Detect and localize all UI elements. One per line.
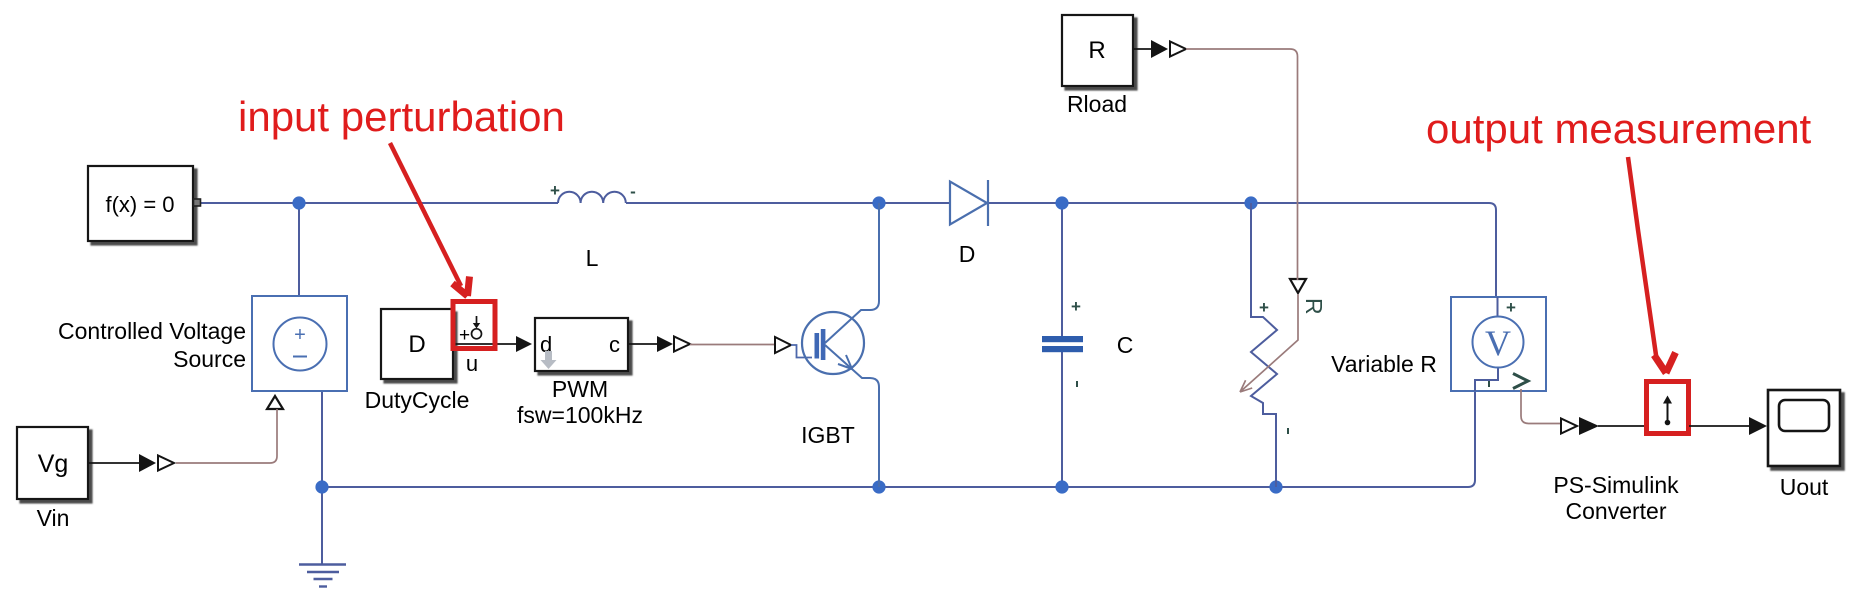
port: PWM output hollow arrow	[674, 337, 690, 352]
solver block f(x)=0	[88, 166, 201, 241]
svg-text:+: +	[294, 324, 306, 346]
svg-text:L: L	[586, 245, 599, 271]
wire: top rail inductor to right corner down to sensor	[626, 203, 1496, 317]
voltage sensor V1	[1451, 297, 1546, 391]
wire: Rload output line	[1133, 48, 1152, 50]
svg-text:DutyCycle: DutyCycle	[365, 387, 470, 413]
node A: CVS top junction	[292, 196, 305, 209]
svg-text:u: u	[466, 351, 478, 376]
wire: Vg output line	[88, 462, 140, 464]
port: arrow into PWM	[516, 336, 532, 352]
port: scope input filled arrow	[1749, 417, 1767, 435]
svg-text:c: c	[609, 332, 620, 357]
controlled voltage source U1	[58, 296, 347, 391]
wire: gate bracket into IGBT	[791, 345, 812, 358]
wire: Rload to resistor control (maroon)	[1186, 49, 1298, 280]
source block Vg	[17, 427, 88, 531]
wire: sensor output to PS-Simulink converter (maroon)	[1521, 389, 1561, 424]
port: Vg simulink-ps hollow arrow	[158, 456, 174, 471]
wire: converter to measurement marker	[1598, 425, 1647, 427]
PWM block	[517, 318, 643, 428]
port: converter hollow arrow	[1561, 419, 1577, 434]
svg-text:Controlled Voltage: Controlled Voltage	[58, 318, 246, 344]
wire: PWM output	[628, 343, 658, 345]
svg-text:-: -	[630, 182, 636, 201]
wire: D block to PWM through sum marker	[453, 343, 517, 345]
svg-text:Vin: Vin	[37, 505, 70, 531]
wire: capacitor top branch	[1061, 203, 1063, 337]
svg-text:f(x) = 0: f(x) = 0	[105, 192, 174, 217]
annotation arrow (input)	[390, 143, 470, 296]
svg-text:R: R	[1301, 298, 1327, 315]
svg-text:+: +	[1071, 297, 1081, 316]
scope block Uout	[1768, 390, 1840, 500]
port: hollow arrow at IGBT gate	[775, 337, 791, 353]
wire: CVS bottom to ground	[321, 391, 323, 565]
wire: top rail from f(x)=0 to inductor	[200, 202, 558, 204]
wire: marker to scope	[1689, 425, 1750, 427]
variable resistor R1 zigzag	[1251, 203, 1288, 487]
block D (DutyCycle)	[365, 309, 470, 413]
measurement marker (red box)	[1647, 382, 1689, 434]
ground	[299, 565, 346, 587]
svg-text:output measurement: output measurement	[1426, 105, 1812, 152]
port: Vg simulink-ps filled arrow	[139, 454, 156, 472]
svg-text:Source: Source	[173, 346, 246, 372]
svg-text:V: V	[1485, 323, 1511, 363]
signal input port triangle of CVS	[267, 396, 283, 409]
port: resistor control input triangle	[1290, 279, 1306, 293]
wire: Vg to CVS (signal, maroon)	[176, 409, 277, 463]
inductor L	[550, 181, 636, 271]
svg-text:Variable R: Variable R	[1331, 351, 1437, 377]
svg-text:IGBT: IGBT	[801, 422, 855, 448]
wire: bottom rail with sensor return	[322, 391, 1475, 487]
svg-text:PWM: PWM	[552, 376, 608, 402]
port: Rload hollow arrow	[1170, 42, 1186, 57]
node E: ground junction	[315, 480, 328, 493]
capacitor C1	[1042, 297, 1133, 387]
diode D1	[950, 180, 988, 267]
perturbation sum marker (red box)	[453, 302, 495, 349]
svg-text:R: R	[1088, 37, 1105, 64]
svg-text:Rload: Rload	[1067, 91, 1127, 117]
svg-text:+: +	[550, 181, 560, 200]
port: converter filled arrow	[1579, 417, 1599, 435]
svg-text:Uout: Uout	[1780, 474, 1829, 500]
node C: capacitor top junction	[1055, 196, 1068, 209]
port: Rload filled arrow	[1151, 40, 1168, 58]
node F: IGBT emitter junction	[872, 480, 885, 493]
node G: capacitor bottom junction	[1055, 480, 1068, 493]
node H: resistor bottom junction	[1269, 480, 1282, 493]
svg-text:input perturbation: input perturbation	[238, 93, 565, 140]
Rload block	[1062, 15, 1133, 117]
wire: Rload control into resistor (maroon arrow)	[1240, 294, 1298, 392]
wire: PWM to IGBT gate (signal, maroon)	[690, 344, 775, 346]
svg-text:fsw=100kHz: fsw=100kHz	[517, 402, 643, 428]
svg-text:Converter: Converter	[1566, 498, 1667, 524]
wire: CVS top branch	[298, 203, 300, 297]
node B: IGBT collector junction	[872, 196, 885, 209]
svg-text:D: D	[959, 241, 976, 267]
svg-text:C: C	[1117, 332, 1134, 358]
wire: capacitor bottom branch	[1061, 352, 1063, 487]
port: PWM output filled arrow	[657, 336, 673, 352]
node D: resistor top junction	[1244, 196, 1257, 209]
svg-text:D: D	[408, 331, 425, 358]
svg-text:+: +	[1259, 298, 1269, 317]
svg-text:Vg: Vg	[38, 450, 69, 478]
transistor IGBT Q1	[801, 203, 879, 487]
annotation arrow (output)	[1628, 157, 1676, 373]
svg-text:+: +	[1506, 298, 1516, 317]
svg-text:PS-Simulink: PS-Simulink	[1553, 472, 1679, 498]
svg-text:+: +	[459, 325, 470, 346]
